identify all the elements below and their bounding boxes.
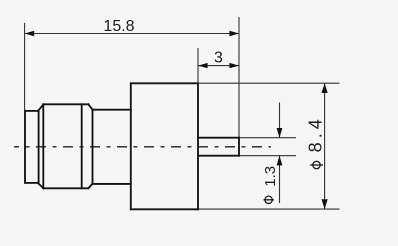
arrowhead 3 right [229,63,239,68]
nut chamfer top-right [88,104,92,109]
bore bottom edge [198,155,239,157]
nut chamfer bottom-right [88,184,92,189]
phi symbol of 8.4 [310,161,323,168]
arrowhead 8.4 top [322,83,328,93]
nut chamfer bottom-left [39,184,44,189]
nut inner line left [42,104,44,188]
right section edge [238,138,240,156]
dimension line 15.8 [25,33,239,35]
cap (left flange) [25,111,39,183]
extension line right of 15.8 and 3 [238,17,240,138]
nut right edge [92,110,94,184]
phi symbol of 1.3 [264,196,275,203]
neck top edge [93,109,131,111]
body internal edge [197,84,199,210]
arrowhead 15.8 left [25,31,35,36]
body top edge [131,82,198,84]
nut bottom edge [44,187,89,189]
nut inner line right [81,104,83,188]
nut chamfer top-left [39,104,44,110]
svg-text:3: 3 [214,49,223,66]
svg-text:1.3: 1.3 [262,166,279,187]
arrowhead 1.3 up [277,156,283,166]
neck bottom edge [93,183,131,185]
svg-text:15.8: 15.8 [103,18,134,35]
dimension line 3 [198,65,239,67]
leader line above dia 1.3 [279,103,281,138]
leader line below dia 1.3 [279,156,281,203]
body left edge [130,84,132,210]
part outline [25,83,239,209]
extension line bottom of dia 1.3 [239,155,296,157]
nut top edge [44,103,89,105]
arrowhead 8.4 bottom [322,199,328,209]
bore top edge [198,137,239,139]
extension line bottom of dia 8.4 [198,208,340,210]
dimension line dia 8.4 [324,83,326,209]
extension line top of dia 1.3 [239,137,296,139]
arrowhead 1.3 down [277,128,283,138]
extension line top of dia 8.4 [198,82,340,84]
extension line left of 15.8 [24,23,26,111]
centerline [14,146,271,148]
arrowhead 3 left [198,63,208,68]
body bottom edge [131,208,198,210]
extension line left of 3 [197,48,199,84]
svg-text:8.4: 8.4 [306,115,326,152]
arrowhead 15.8 right [229,31,239,36]
